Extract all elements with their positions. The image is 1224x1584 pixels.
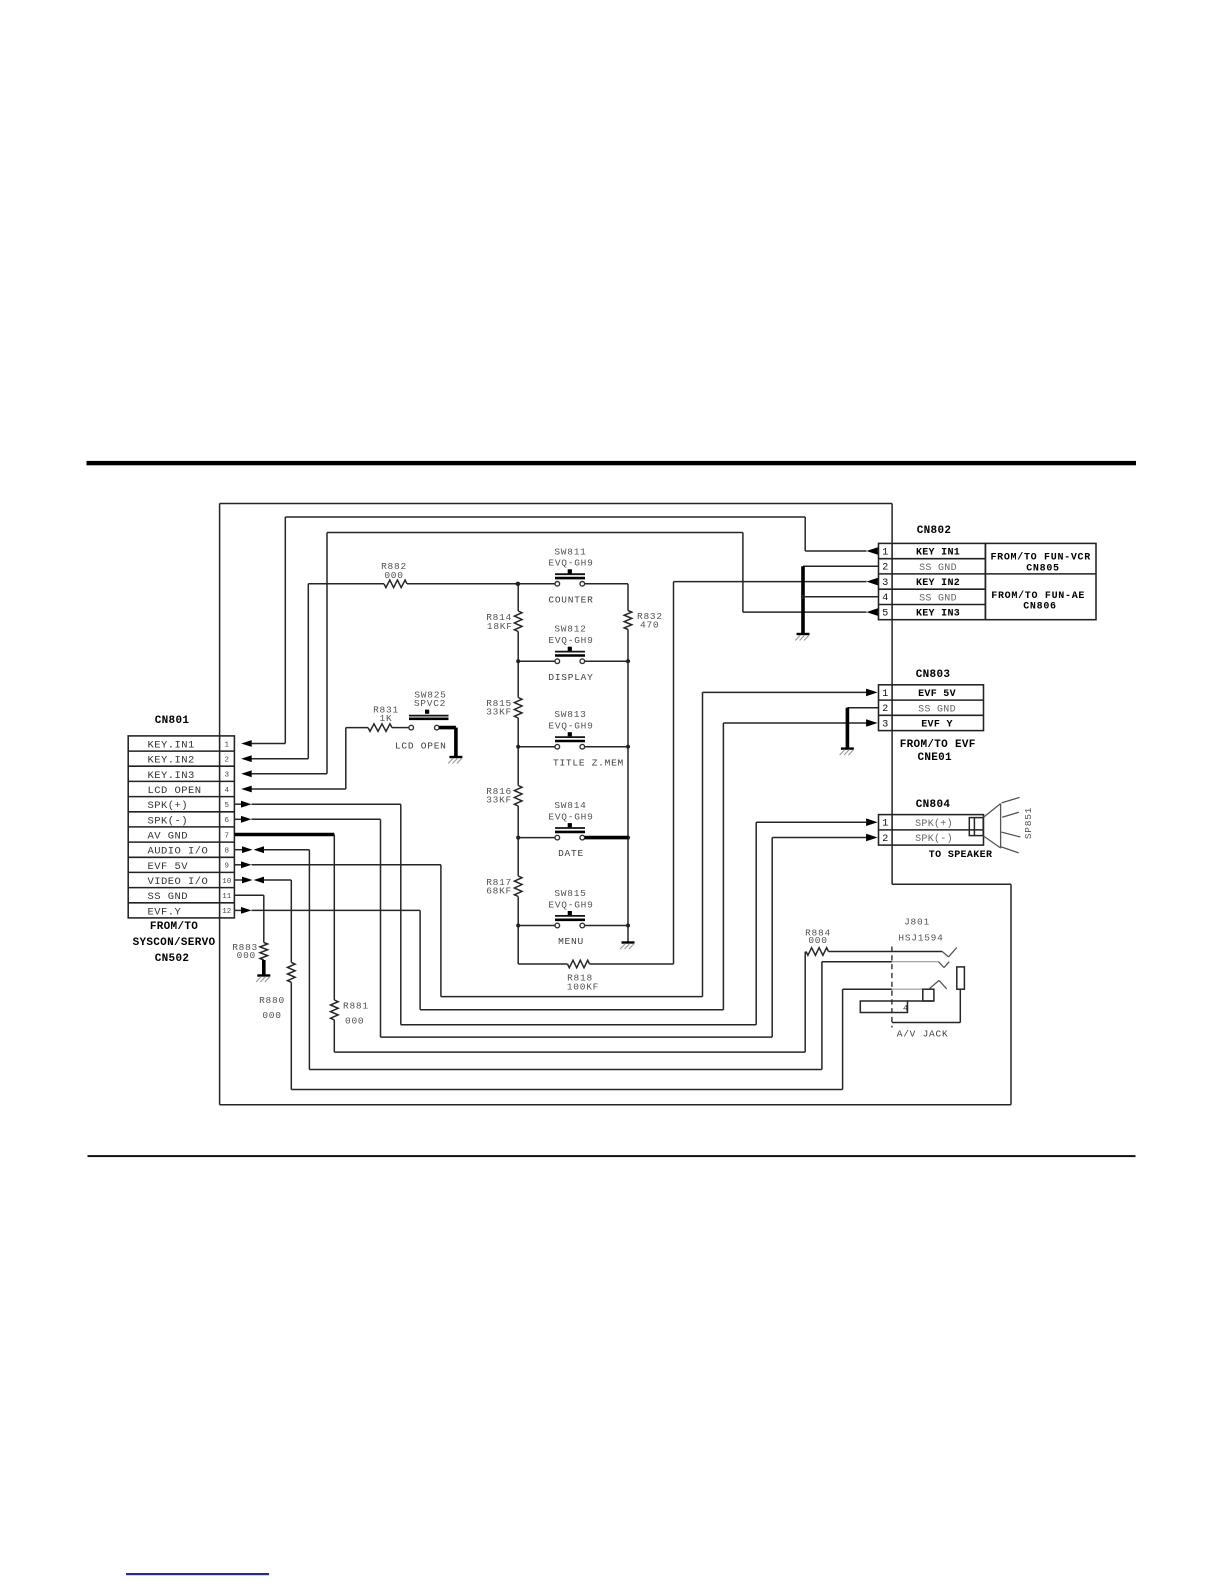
svg-text:EVF 5V: EVF 5V xyxy=(148,861,189,873)
svg-text:TO SPEAKER: TO SPEAKER xyxy=(929,850,993,861)
svg-text:000: 000 xyxy=(262,1010,281,1021)
footer link line xyxy=(126,1573,269,1575)
resistor R880 000 xyxy=(259,962,295,1021)
svg-text:EVQ-GH9: EVQ-GH9 xyxy=(548,558,593,569)
svg-text:000: 000 xyxy=(237,950,256,961)
svg-text:COUNTER: COUNTER xyxy=(548,594,593,605)
svg-text:SP851: SP851 xyxy=(1023,807,1034,839)
connector CN803 body xyxy=(879,685,984,731)
svg-text:R880: R880 xyxy=(259,995,285,1006)
ground at ladder right rail xyxy=(620,943,634,950)
svg-text:SPK(-): SPK(-) xyxy=(915,833,953,845)
svg-text:R881: R881 xyxy=(343,1001,369,1012)
svg-text:FROM/TO: FROM/TO xyxy=(150,921,198,933)
svg-text:4: 4 xyxy=(882,593,888,604)
ground at SW825 xyxy=(448,757,462,764)
svg-text:12: 12 xyxy=(222,908,231,916)
svg-text:SPK(+): SPK(+) xyxy=(148,800,189,812)
resistor R883 000 xyxy=(232,942,267,961)
svg-text:SS GND: SS GND xyxy=(919,593,957,604)
label FROM/TO SYSCON/SERVO CN502 xyxy=(133,921,216,965)
svg-text:CN804: CN804 xyxy=(916,799,951,811)
wire KEY IN2 (R818 to CN802 pin3) xyxy=(674,578,879,964)
pushbutton switch SW813 (TITLE Z.MEM) xyxy=(518,709,628,768)
A/V jack J801 HSJ1594 symbol xyxy=(829,947,965,1028)
resistor R817 68KF xyxy=(486,876,522,897)
svg-text:EVF Y: EVF Y xyxy=(921,720,953,731)
svg-text:7: 7 xyxy=(225,832,230,840)
wire SS GND (CN801 pin11 via R883 to ground) xyxy=(234,895,263,942)
resistor R816 33KF xyxy=(486,786,522,807)
svg-text:5: 5 xyxy=(225,802,230,810)
svg-text:KEY IN3: KEY IN3 xyxy=(916,609,960,620)
svg-text:2: 2 xyxy=(882,834,888,845)
wire ladder right rail xyxy=(626,584,630,943)
wire KEY.IN3 (CN801 pin3 to CN802 pin5) xyxy=(241,533,878,778)
svg-text:EVQ-GH9: EVQ-GH9 xyxy=(548,635,593,646)
svg-text:KEY IN1: KEY IN1 xyxy=(916,548,960,559)
svg-text:SPK(-): SPK(-) xyxy=(148,815,189,827)
svg-text:000: 000 xyxy=(345,1016,364,1027)
svg-text:MENU: MENU xyxy=(558,936,584,947)
resistor R831 1K xyxy=(367,705,399,732)
svg-text:9: 9 xyxy=(225,863,230,871)
svg-text:SW813: SW813 xyxy=(554,709,586,720)
svg-text:2: 2 xyxy=(882,563,888,574)
svg-text:3: 3 xyxy=(882,578,888,589)
wire outer ground loop xyxy=(220,504,1011,1105)
wire KEY.IN1 (CN801 pin1 to CN802 pin1) xyxy=(241,517,878,747)
svg-text:2: 2 xyxy=(225,757,230,765)
wire AUDIO I/O (CN801 pin8 to jack ring) xyxy=(234,846,892,1069)
wire SS GND (CN803 pin2) with ground xyxy=(840,708,879,755)
svg-text:1: 1 xyxy=(882,819,888,830)
ground below R883 xyxy=(256,960,270,982)
svg-text:KEY IN2: KEY IN2 xyxy=(916,578,960,589)
svg-text:SPK(+): SPK(+) xyxy=(915,818,953,830)
svg-text:AUDIO I/O: AUDIO I/O xyxy=(148,846,209,858)
svg-text:100KF: 100KF xyxy=(567,982,599,993)
svg-text:8: 8 xyxy=(225,848,230,856)
svg-text:3: 3 xyxy=(882,719,888,730)
svg-text:J801: J801 xyxy=(904,917,930,928)
svg-text:CN801: CN801 xyxy=(155,715,190,727)
label A/V JACK xyxy=(897,1029,949,1040)
svg-text:EVF 5V: EVF 5V xyxy=(918,689,956,700)
svg-text:FROM/TO FUN-VCR: FROM/TO FUN-VCR xyxy=(990,552,1091,564)
svg-text:EVQ-GH9: EVQ-GH9 xyxy=(548,721,593,732)
svg-text:KEY.IN3: KEY.IN3 xyxy=(148,770,195,782)
svg-text:KEY.IN1: KEY.IN1 xyxy=(148,740,195,752)
label CN803 xyxy=(916,669,951,681)
wire KEY.IN2 (CN801 pin2 via R882 to ladder) xyxy=(241,582,520,762)
pushbutton switch SW812 (DISPLAY) xyxy=(518,624,628,683)
pushbutton switch SW825 SPVC2 (LCD OPEN) xyxy=(395,690,456,758)
svg-text:11: 11 xyxy=(222,893,232,901)
resistor R882 000 xyxy=(381,561,407,588)
svg-text:1K: 1K xyxy=(380,713,393,724)
label CN801 xyxy=(155,715,190,727)
svg-text:4: 4 xyxy=(225,787,230,795)
svg-text:000: 000 xyxy=(808,935,827,946)
svg-text:DATE: DATE xyxy=(558,848,584,859)
resistor R818 100KF xyxy=(518,960,673,992)
resistor R881 000 xyxy=(331,1000,369,1027)
wire EVF.Y (CN801 pin12 to CN803 pin3) xyxy=(234,719,877,1010)
speaker SP851 xyxy=(969,797,1034,853)
svg-text:33KF: 33KF xyxy=(486,795,512,806)
svg-text:1: 1 xyxy=(225,741,230,749)
svg-text:LCD OPEN: LCD OPEN xyxy=(395,741,447,752)
resistor R814 18KF xyxy=(486,611,522,632)
svg-text:SPVC2: SPVC2 xyxy=(414,698,446,709)
svg-text:SS GND: SS GND xyxy=(148,891,189,903)
svg-text:CN502: CN502 xyxy=(155,953,190,965)
pushbutton switch SW815 (MENU) xyxy=(518,888,628,947)
svg-text:TITLE Z.MEM: TITLE Z.MEM xyxy=(553,757,624,768)
label J801 xyxy=(904,917,930,928)
svg-text:FROM/TO EVF: FROM/TO EVF xyxy=(900,739,976,751)
svg-text:CN805: CN805 xyxy=(1026,564,1060,575)
label CN802 xyxy=(917,525,952,537)
label CN804 xyxy=(916,799,951,811)
bottom rule xyxy=(88,1155,1136,1157)
wire VIDEO I/O (CN801 pin10 via R880 to jack tip) xyxy=(234,877,842,1090)
resistor R815 33KF xyxy=(486,698,522,719)
svg-text:CN803: CN803 xyxy=(916,669,951,681)
resistor R832 470 xyxy=(624,611,663,631)
svg-text:000: 000 xyxy=(384,570,403,581)
resistor R884 000 xyxy=(805,928,831,956)
svg-text:18KF: 18KF xyxy=(487,621,513,632)
svg-text:A/V JACK: A/V JACK xyxy=(897,1029,949,1040)
svg-text:CN806: CN806 xyxy=(1023,602,1057,613)
wire ladder left rail xyxy=(516,582,520,964)
connector CN804 body xyxy=(879,815,984,846)
pushbutton switch SW811 (COUNTER) xyxy=(518,546,628,605)
svg-text:470: 470 xyxy=(640,620,659,631)
svg-text:EVF.Y: EVF.Y xyxy=(148,906,182,918)
label HSJ1594 xyxy=(898,933,943,944)
svg-text:3: 3 xyxy=(225,772,230,780)
svg-text:68KF: 68KF xyxy=(486,886,512,897)
wire LCD OPEN (CN801 pin4 to SW825) xyxy=(241,728,366,793)
svg-text:DISPLAY: DISPLAY xyxy=(548,672,593,683)
connector CN801 body xyxy=(128,736,234,919)
svg-text:SS GND: SS GND xyxy=(919,563,957,574)
svg-text:FROM/TO FUN-AE: FROM/TO FUN-AE xyxy=(991,590,1085,602)
svg-text:SW814: SW814 xyxy=(554,800,586,811)
label TO SPEAKER xyxy=(929,850,993,861)
svg-text:6: 6 xyxy=(225,817,230,825)
svg-text:10: 10 xyxy=(222,878,232,886)
svg-text:SYSCON/SERVO: SYSCON/SERVO xyxy=(133,937,216,949)
svg-text:EVQ-GH9: EVQ-GH9 xyxy=(548,899,593,910)
svg-text:SW815: SW815 xyxy=(554,888,586,899)
svg-text:1: 1 xyxy=(882,689,888,700)
svg-text:1: 1 xyxy=(882,547,888,558)
pushbutton switch SW814 (DATE) xyxy=(518,800,628,859)
svg-text:KEY.IN2: KEY.IN2 xyxy=(148,755,195,767)
svg-text:CN802: CN802 xyxy=(917,525,952,537)
connector CN802 body xyxy=(879,543,986,619)
svg-text:CNE01: CNE01 xyxy=(917,752,952,764)
svg-text:VIDEO I/O: VIDEO I/O xyxy=(148,876,209,888)
svg-text:SS GND: SS GND xyxy=(918,704,956,715)
svg-text:33KF: 33KF xyxy=(486,707,512,718)
svg-text:4: 4 xyxy=(903,1004,908,1014)
wire SPK(+) (CN801 pin5 to CN804 pin1) xyxy=(234,801,877,1025)
label FROM/TO EVF CNE01 xyxy=(900,739,976,764)
svg-text:2: 2 xyxy=(882,704,888,715)
wire EVF 5V (CN801 pin9 to CN803 pin1) xyxy=(234,689,877,997)
wire SS GND (CN802 pins 2,4) with ground xyxy=(795,566,878,640)
wire SPK(-) (CN801 pin6 to CN804 pin2) xyxy=(234,816,877,1037)
svg-text:5: 5 xyxy=(882,609,888,620)
svg-text:SW811: SW811 xyxy=(554,546,586,557)
wire AV GND (CN801 pin7 to R881/R884 to jack sleeve) xyxy=(234,835,805,1053)
svg-text:HSJ1594: HSJ1594 xyxy=(898,933,943,944)
label box FROM/TO FUN-VCR CN805 / FUN-AE CN806 xyxy=(985,543,1096,619)
svg-text:LCD OPEN: LCD OPEN xyxy=(148,785,202,797)
svg-text:EVQ-GH9: EVQ-GH9 xyxy=(548,811,593,822)
svg-text:AV GND: AV GND xyxy=(148,831,189,843)
top rule xyxy=(87,461,1137,465)
svg-text:SW812: SW812 xyxy=(554,624,586,635)
